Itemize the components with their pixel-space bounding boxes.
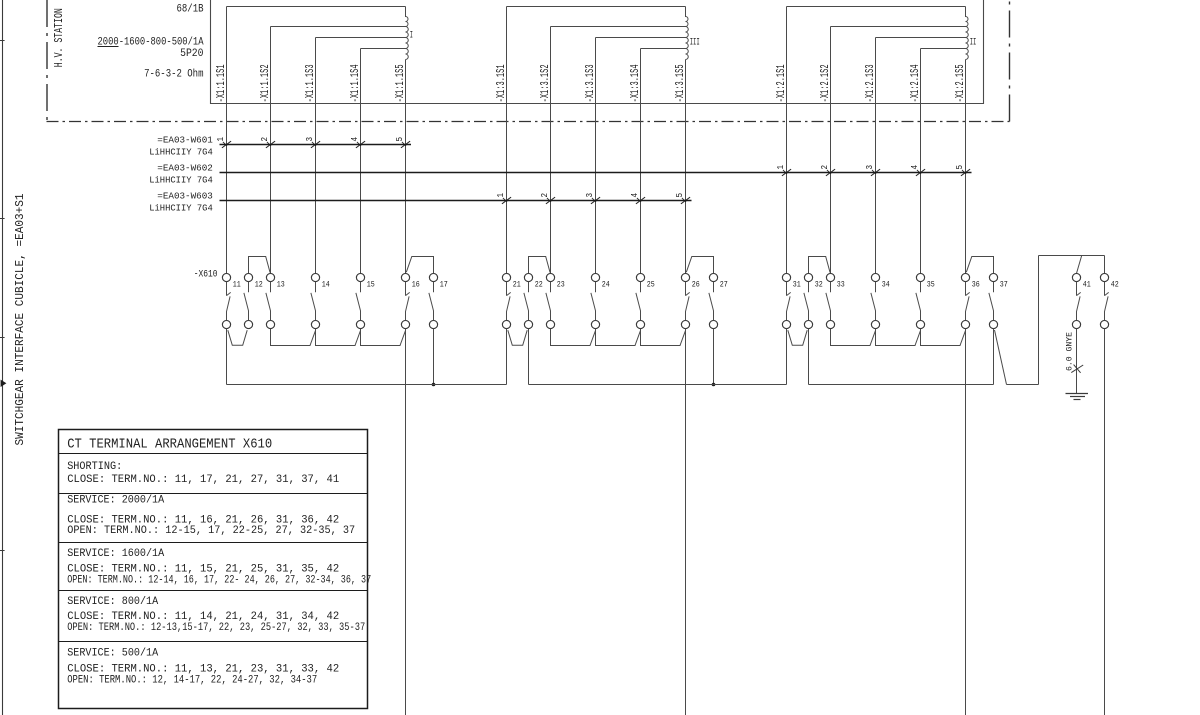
- svg-text:-X1:3.1S1: -X1:3.1S1: [495, 64, 508, 102]
- svg-text:-X1:1.1S3: -X1:1.1S3: [304, 64, 317, 102]
- svg-text:-X1:2.1S3: -X1:2.1S3: [864, 64, 877, 102]
- svg-text:-X1:3.1S3: -X1:3.1S3: [584, 64, 597, 102]
- svg-text:3: 3: [865, 165, 875, 170]
- svg-text:3: 3: [305, 137, 315, 142]
- svg-text:-X1:1.1S2: -X1:1.1S2: [259, 64, 272, 102]
- svg-text:41: 41: [1083, 279, 1091, 289]
- svg-text:34: 34: [882, 279, 890, 289]
- svg-text:17: 17: [440, 279, 448, 289]
- svg-text:H.V. STATION: H.V. STATION: [52, 8, 66, 67]
- svg-text:=EA03-W603: =EA03-W603: [157, 191, 213, 202]
- svg-text:I: I: [410, 31, 413, 42]
- svg-text:22: 22: [535, 279, 543, 289]
- svg-text:-X610: -X610: [194, 269, 218, 280]
- svg-text:12: 12: [255, 279, 263, 289]
- svg-text:-X1:2.1S5: -X1:2.1S5: [954, 64, 967, 102]
- svg-text:II: II: [970, 38, 977, 49]
- svg-text:SERVICE: 2000/1A: SERVICE: 2000/1A: [67, 495, 164, 507]
- svg-text:14: 14: [322, 279, 330, 289]
- svg-text:68/1B: 68/1B: [177, 3, 204, 15]
- svg-text:5P20: 5P20: [180, 48, 203, 60]
- svg-text:1: 1: [776, 165, 786, 170]
- svg-text:4: 4: [630, 193, 640, 198]
- svg-text:SWITCHGEAR INTERFACE CUBICLE,: SWITCHGEAR INTERFACE CUBICLE, =EA03+S1: [13, 194, 27, 446]
- svg-text:III: III: [690, 38, 700, 49]
- svg-text:42: 42: [1111, 279, 1119, 289]
- svg-text:7-6-3-2 Ohm: 7-6-3-2 Ohm: [144, 69, 204, 81]
- svg-text:5: 5: [395, 137, 405, 142]
- svg-text:LiHHCIIY 7G4: LiHHCIIY 7G4: [149, 175, 213, 186]
- svg-text:4: 4: [910, 165, 920, 170]
- svg-text:OPEN: TERM.NO.: 12-14, 16, 17: OPEN: TERM.NO.: 12-14, 16, 17, 22- 24, 2…: [67, 575, 371, 587]
- svg-text:SERVICE: 500/1A: SERVICE: 500/1A: [67, 648, 158, 660]
- svg-text:13: 13: [277, 279, 285, 289]
- svg-text:=EA03-W602: =EA03-W602: [157, 163, 213, 174]
- svg-text:33: 33: [837, 279, 845, 289]
- svg-text:=EA03-W601: =EA03-W601: [157, 135, 213, 146]
- svg-text:OPEN: TERM.NO.: 12, 14-17, 22: OPEN: TERM.NO.: 12, 14-17, 22, 24-27, 32…: [67, 675, 317, 687]
- svg-text:27: 27: [720, 279, 728, 289]
- svg-text:5: 5: [955, 165, 965, 170]
- svg-text:1: 1: [496, 193, 506, 198]
- svg-text:OPEN: TERM.NO.: 12-13,15-17,: OPEN: TERM.NO.: 12-13,15-17, 22, 23, 25-…: [67, 622, 365, 634]
- svg-text:LiHHCIIY 7G4: LiHHCIIY 7G4: [149, 147, 213, 158]
- svg-text:21: 21: [513, 279, 521, 289]
- svg-text:4: 4: [350, 137, 360, 142]
- svg-text:5: 5: [675, 193, 685, 198]
- svg-text:15: 15: [367, 279, 375, 289]
- svg-text:32: 32: [815, 279, 823, 289]
- svg-text:35: 35: [927, 279, 935, 289]
- svg-text:26: 26: [692, 279, 700, 289]
- svg-text:1: 1: [216, 137, 226, 142]
- svg-text:-X1:2.1S4: -X1:2.1S4: [909, 64, 922, 102]
- svg-text:OPEN: TERM.NO.: 12-15, 17, 22: OPEN: TERM.NO.: 12-15, 17, 22-25, 27, 32…: [67, 525, 355, 537]
- svg-text:37: 37: [1000, 279, 1008, 289]
- svg-text:25: 25: [647, 279, 655, 289]
- svg-text:-X1:3.1S2: -X1:3.1S2: [539, 64, 552, 102]
- svg-text:-X1:3.1S4: -X1:3.1S4: [629, 64, 642, 102]
- svg-text:-X1:3.1S5: -X1:3.1S5: [674, 64, 687, 102]
- svg-text:CT TERMINAL ARRANGEMENT X610: CT TERMINAL ARRANGEMENT X610: [67, 438, 272, 453]
- svg-text:SERVICE: 800/1A: SERVICE: 800/1A: [67, 596, 158, 608]
- svg-text:11: 11: [233, 279, 241, 289]
- svg-text:SHORTING:: SHORTING:: [67, 461, 122, 473]
- svg-text:36: 36: [972, 279, 980, 289]
- svg-text:6.0 GNYE: 6.0 GNYE: [1065, 332, 1074, 371]
- svg-text:16: 16: [412, 279, 420, 289]
- svg-text:2: 2: [260, 137, 270, 142]
- svg-text:2: 2: [820, 165, 830, 170]
- svg-text:23: 23: [557, 279, 565, 289]
- svg-text:-X1:1.1S4: -X1:1.1S4: [349, 64, 362, 102]
- svg-text:CLOSE: TERM.NO.: 11, 17, 21, 2: CLOSE: TERM.NO.: 11, 17, 21, 27, 31, 37,…: [67, 474, 339, 486]
- svg-text:-X1:2.1S2: -X1:2.1S2: [819, 64, 832, 102]
- svg-text:LiHHCIIY 7G4: LiHHCIIY 7G4: [149, 203, 213, 214]
- svg-text:3: 3: [585, 193, 595, 198]
- svg-text:2: 2: [540, 193, 550, 198]
- svg-text:24: 24: [602, 279, 610, 289]
- svg-text:-X1:2.1S1: -X1:2.1S1: [775, 64, 788, 102]
- svg-text:SERVICE: 1600/1A: SERVICE: 1600/1A: [67, 548, 164, 560]
- svg-text:-X1:1.1S1: -X1:1.1S1: [215, 64, 228, 102]
- svg-text:-X1:1.1S5: -X1:1.1S5: [394, 64, 407, 102]
- svg-text:31: 31: [793, 279, 801, 289]
